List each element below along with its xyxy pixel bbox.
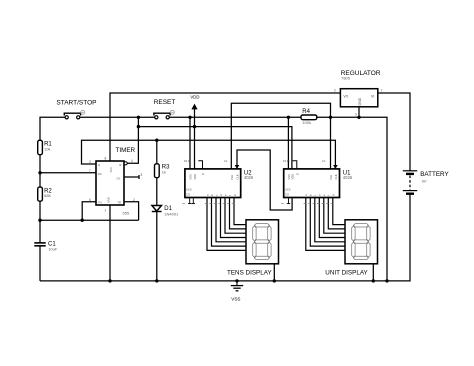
wire C1 top lead (39, 220, 41, 242)
svg-text:1: 1 (381, 89, 383, 93)
display DS1 tens (227, 220, 279, 276)
svg-text:9V: 9V (422, 179, 427, 184)
svg-text:GND: GND (107, 197, 111, 203)
capacitor C1 (34, 241, 58, 251)
wire rail1 reset net segment (170, 116, 302, 118)
svg-text:CO: CO (285, 193, 289, 197)
svg-text:VI: VI (371, 95, 374, 99)
svg-text:VDD: VDD (193, 174, 197, 180)
wire top VDD rail (110, 93, 340, 161)
svg-text:TENS DISPLAY: TENS DISPLAY (227, 269, 272, 276)
wire rail1 ground segment (317, 117, 387, 281)
svg-text:D: D (296, 173, 300, 175)
wire left branch to R1 (40, 117, 65, 140)
resistor R3 (155, 164, 171, 178)
op timer U3 555 (89, 147, 143, 216)
svg-text:VCC: VCC (109, 167, 113, 173)
svg-text:START/STOP: START/STOP (56, 100, 96, 107)
svg-text:5: 5 (141, 173, 143, 177)
switch S2 RESET (154, 99, 176, 119)
svg-text:VSS: VSS (287, 174, 291, 179)
svg-text:VSS: VSS (189, 174, 193, 179)
svg-text:R: R (120, 163, 122, 167)
battery BT1 (403, 171, 450, 194)
wire R1 bottom lead (39, 155, 41, 187)
wire U1 RST pin to reset net (287, 117, 289, 169)
svg-text:2: 2 (133, 198, 135, 202)
svg-text:CV: CV (117, 177, 121, 181)
wire timer DC pin to R1 R2 node (40, 172, 96, 174)
svg-text:Q: Q (98, 163, 100, 167)
U2 segment wires to tens display (207, 198, 246, 251)
svg-text:UNIT DISPLAY: UNIT DISPLAY (325, 269, 368, 276)
ground symbol VSS (231, 281, 243, 302)
svg-text:INH: INH (230, 175, 234, 180)
wire U2 INH over the top (231, 103, 330, 169)
U1 clock arrowhead (333, 165, 338, 169)
wire unit display to ground rail (372, 264, 374, 281)
svg-text:4026: 4026 (343, 175, 353, 180)
IC U2 4026 tens counter (184, 159, 254, 204)
U2 unused bottom stubs (188, 198, 195, 204)
wire regulator output to battery (378, 93, 410, 171)
U1 segment wires to unit display (306, 198, 345, 251)
U1 unused bottom stub (287, 198, 290, 204)
svg-text:CO: CO (186, 193, 190, 197)
svg-text:DC: DC (98, 172, 102, 176)
svg-text:6: 6 (89, 198, 91, 202)
svg-text:2 1: 2 1 (322, 159, 326, 163)
wire R3 top (156, 140, 158, 164)
wire TR TH node horizontal (40, 219, 139, 221)
resistor R4 (301, 109, 317, 125)
svg-text:1k: 1k (162, 170, 166, 175)
wire rail2 VDD (138, 127, 292, 169)
wire D1 to ground rail (156, 211, 158, 281)
svg-text:100k: 100k (302, 120, 311, 125)
svg-text:TIMER: TIMER (116, 147, 136, 154)
U2 clock arrowhead (235, 165, 240, 169)
wire timer GND pin down (109, 205, 111, 281)
resistor R2 (38, 187, 53, 201)
svg-text:4: 4 (131, 159, 133, 163)
svg-text:1N4001: 1N4001 (164, 211, 179, 216)
wire U2 RST pin to reset net (189, 117, 191, 169)
U1 display-enable stub pin (293, 161, 297, 169)
svg-text:7805: 7805 (341, 75, 351, 80)
svg-text:CLK: CLK (236, 174, 240, 179)
wire VDD arrow to U2 VDD pin (194, 109, 196, 169)
svg-text:7: 7 (89, 169, 91, 173)
wire battery dashed middle (409, 176, 411, 190)
U2 segment output labels (206, 194, 236, 196)
svg-text:2 1: 2 1 (224, 159, 228, 163)
U2 pin end ticks (183, 202, 235, 204)
wire timer CV stub (124, 176, 139, 178)
diode D1 (152, 206, 179, 217)
svg-text:15 16: 15 16 (283, 159, 290, 163)
wire C1 bottom lead to ground rail (39, 246, 41, 281)
svg-text:TR: TR (118, 201, 122, 205)
wire U1 carry out to U2 clock (237, 150, 292, 210)
svg-text:UCS: UCS (186, 188, 192, 192)
wire timer TH pin down (82, 202, 96, 220)
svg-text:555: 555 (123, 211, 130, 216)
wire timer reset pin to rails (127, 117, 138, 163)
svg-text:CLK: CLK (334, 174, 338, 179)
resistor R1 (38, 140, 53, 154)
regulator U4 7805 (334, 70, 383, 117)
svg-text:INH: INH (329, 175, 333, 180)
switch S1 START/STOP (56, 100, 96, 119)
svg-text:8: 8 (105, 157, 107, 161)
IC U1 4026 units counter (283, 159, 353, 204)
wire tens display to ground rail (273, 264, 275, 281)
svg-text:1: 1 (105, 209, 107, 213)
U1 segment output labels (305, 194, 335, 196)
svg-text:3: 3 (89, 160, 91, 164)
power symbol VDD (190, 95, 199, 110)
svg-text:15 16: 15 16 (184, 159, 191, 163)
U1 pin end ticks (281, 202, 333, 204)
wire rail1 segment VDD (switch to reset switch) (80, 116, 155, 118)
wire R2 bottom lead (39, 201, 41, 220)
svg-text:R4: R4 (302, 109, 310, 115)
svg-text:10uF: 10uF (48, 246, 58, 251)
svg-text:VDD: VDD (291, 174, 295, 180)
svg-text:BATTERY: BATTERY (420, 171, 449, 178)
U2 display-enable stub pin (198, 161, 202, 169)
svg-text:UCS: UCS (285, 188, 291, 192)
wire timer TR pin (124, 202, 139, 220)
display DS2 units (325, 220, 377, 277)
svg-text:3: 3 (355, 113, 357, 117)
svg-text:GND: GND (358, 97, 362, 105)
svg-text:VSS: VSS (231, 297, 240, 302)
svg-text:68K: 68K (44, 193, 51, 198)
wire bottom ground rail (40, 195, 410, 281)
svg-text:RESET: RESET (154, 99, 176, 106)
wire regulator gnd pin (358, 107, 360, 118)
svg-text:VDD: VDD (190, 95, 199, 100)
svg-text:TH: TH (98, 201, 102, 205)
svg-text:D: D (201, 173, 205, 175)
svg-text:2: 2 (334, 89, 336, 93)
wire rail3 555 output (82, 140, 336, 169)
svg-text:10k: 10k (44, 146, 50, 151)
svg-text:4026: 4026 (244, 175, 254, 180)
wire R3 to D1 (156, 178, 158, 206)
svg-text:VO: VO (343, 95, 348, 99)
